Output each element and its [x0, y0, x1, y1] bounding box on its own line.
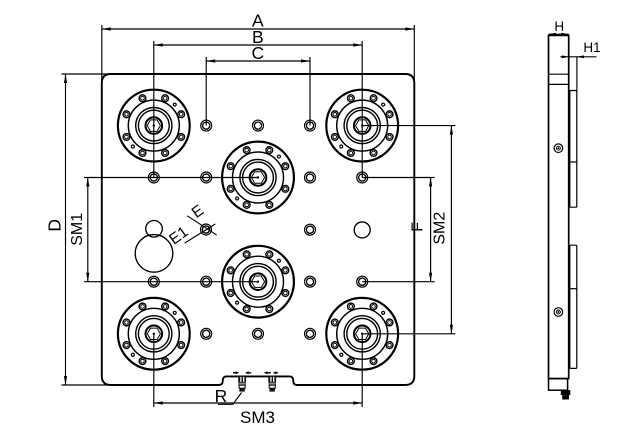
dimension A [102, 25, 415, 85]
svg-text:C: C [251, 43, 264, 63]
flange bottom-right [326, 298, 398, 370]
flange top-left [118, 90, 190, 162]
dimension SM3 [154, 334, 362, 407]
plate outline front view [102, 74, 415, 385]
side pad lower [570, 245, 577, 368]
svg-text:SM2: SM2 [432, 212, 449, 245]
flange top-right [326, 90, 398, 162]
dimension H [549, 33, 569, 36]
side screw lower [554, 308, 563, 317]
svg-text:H: H [554, 19, 564, 34]
target hole E [185, 216, 217, 243]
svg-text:H1: H1 [583, 40, 600, 55]
dimension B [154, 41, 362, 178]
side view body [549, 35, 569, 390]
dimension SM2 [362, 126, 455, 334]
svg-text:SM3: SM3 [240, 408, 275, 427]
dimension D [62, 74, 113, 385]
svg-text:F: F [409, 222, 426, 232]
side foot [561, 390, 571, 399]
flange middle-upper [222, 142, 294, 214]
flange middle-lower [222, 246, 294, 318]
dimension F [362, 178, 434, 282]
hole row3 [305, 224, 316, 235]
dimension H1 [560, 55, 596, 90]
side screw upper [554, 144, 563, 153]
large circle left pair [135, 235, 173, 273]
hole row5 [201, 328, 316, 339]
svg-text:SM1: SM1 [69, 213, 86, 246]
svg-text:R: R [215, 386, 228, 406]
label R leader [218, 393, 242, 405]
side pad upper [570, 91, 577, 208]
hole row1 [201, 120, 316, 131]
plain circle right [354, 222, 370, 238]
hole row2 [148, 172, 367, 183]
dimension SM1 [84, 178, 258, 282]
fitting right arrows [264, 371, 279, 374]
flange bottom-left [118, 298, 190, 370]
svg-text:D: D [45, 219, 65, 232]
fitting right [268, 376, 276, 391]
hole row4 [148, 276, 367, 287]
fitting left arrows [233, 371, 251, 374]
small circle left pair [146, 221, 163, 238]
dimension C [206, 57, 310, 126]
fitting left [238, 376, 246, 391]
